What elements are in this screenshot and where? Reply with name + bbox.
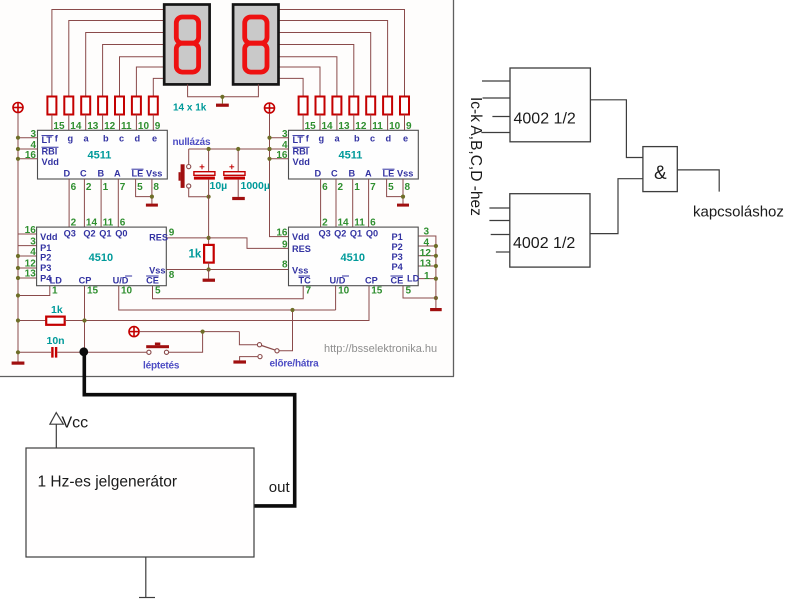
- svg-text:Vss: Vss: [397, 169, 413, 179]
- IC box U2 (4510 BCD up/down counter): [37, 227, 167, 286]
- junction: rail / U1 pin 3: [16, 136, 20, 140]
- svg-text:CE: CE: [391, 276, 404, 286]
- junction: rail / R16 net: [16, 318, 20, 322]
- svg-text:c: c: [370, 134, 375, 144]
- junction: rail / U1 pin 4: [16, 147, 20, 151]
- svg-text:C: C: [331, 169, 338, 179]
- svg-text:LT: LT: [293, 135, 304, 145]
- junction: rail2 / U3 pin 4: [267, 147, 271, 151]
- svg-text:1: 1: [52, 286, 58, 297]
- wire: U3 pin 4 to rail: [270, 148, 289, 150]
- svg-text:Vcc: Vcc: [62, 415, 89, 432]
- ground: generator: [139, 557, 155, 598]
- wire: U3 pin 7 to U4 pin 6: [368, 179, 370, 227]
- wire: U4 pin 3 P1 / right rail: [418, 236, 436, 308]
- junction: U3 pins 5/8: [401, 195, 405, 199]
- svg-text:16: 16: [25, 150, 37, 161]
- svg-text:4: 4: [30, 247, 36, 258]
- resistor R1 (1k): [47, 97, 56, 115]
- svg-text:16: 16: [276, 150, 288, 161]
- svg-text:Ic-k A,B,C,D -hez: Ic-k A,B,C,D -hez: [467, 97, 484, 216]
- wire: U3 pin 8 Vss to ground: [402, 179, 404, 204]
- resistor R14 (1k): [400, 97, 409, 115]
- ground symbol: switch: [233, 360, 246, 363]
- svg-text:7: 7: [120, 182, 126, 193]
- ground symbol: U3 Vss: [397, 204, 409, 207]
- wire: U1 pin 3 to rail: [18, 137, 38, 139]
- resistor R12 (1k): [366, 97, 375, 115]
- capacitor C1 10µ electrolytic: [194, 164, 215, 179]
- svg-text:A: A: [365, 169, 372, 179]
- svg-text:elõre/hátra: elõre/hátra: [270, 359, 320, 370]
- svg-text:3: 3: [30, 129, 36, 140]
- wire: display1 segment d to R6: [136, 67, 164, 97]
- wire: U2 pin 10 U/D to U4 pin 10: [119, 286, 336, 310]
- resistor R7 (1k): [149, 97, 158, 115]
- svg-text:8: 8: [169, 270, 175, 281]
- junction: reset net / rail2: [267, 147, 271, 151]
- wire: R10 to 4511 U3 pin: [336, 115, 338, 131]
- svg-text:out: out: [269, 479, 291, 496]
- svg-text:U/D: U/D: [113, 276, 129, 286]
- ground symbol: C2: [232, 197, 245, 200]
- svg-text:LE: LE: [132, 169, 144, 179]
- svg-text:e: e: [403, 134, 408, 144]
- svg-text:CP: CP: [365, 276, 378, 286]
- wire: R16 to CP pins net: [65, 320, 369, 322]
- svg-text:15: 15: [371, 286, 383, 297]
- wire: S2 to power net: [169, 332, 203, 353]
- svg-text:RES: RES: [149, 233, 168, 243]
- svg-text:5: 5: [406, 286, 412, 297]
- svg-text:4510: 4510: [89, 252, 113, 264]
- svg-text:Vdd: Vdd: [293, 157, 310, 167]
- svg-text:P3: P3: [40, 263, 51, 273]
- wire: U2 pin 13 to rail: [18, 277, 37, 279]
- schematic border bottom edge: [0, 376, 454, 378]
- wires: U5 input stubs: [481, 81, 510, 133]
- wire: display2 segment d to R9: [279, 67, 321, 97]
- wire: C3 to léptetés button: [57, 351, 146, 353]
- svg-text:3: 3: [424, 227, 430, 238]
- 7-segment display DIS1: [164, 5, 209, 85]
- resistor R6 (1k): [132, 97, 141, 115]
- wire: R11 to 4511 U3 pin: [353, 115, 355, 131]
- svg-text:RES: RES: [292, 244, 311, 254]
- wire: U2 pin 1 LD to rail: [18, 286, 50, 296]
- svg-text:TC: TC: [299, 276, 312, 286]
- svg-text:g: g: [68, 134, 74, 144]
- svg-text:14 x 1k: 14 x 1k: [173, 103, 207, 114]
- svg-text:P1: P1: [40, 243, 51, 253]
- wire: reset button bottom lead: [189, 188, 209, 197]
- junction: rail / U2 pin 4: [16, 254, 20, 258]
- junction: right rail / U4 pin 4: [434, 244, 438, 248]
- wire: U3 pin 5 LE: [387, 179, 403, 197]
- svg-text:Q3: Q3: [319, 229, 331, 239]
- wire: C2 top lead: [237, 149, 239, 172]
- wire: display2 segment b to R11: [279, 45, 354, 97]
- svg-text:c: c: [119, 134, 124, 144]
- wire: U2 pin 12 to rail: [18, 267, 37, 269]
- junction: rail / C3: [16, 350, 20, 354]
- svg-text:RBI: RBI: [293, 147, 309, 157]
- wire: U4 pin 1 to right rail: [418, 278, 436, 280]
- svg-text:nullázás: nullázás: [173, 137, 211, 148]
- svg-text:3: 3: [30, 236, 36, 247]
- svg-text:6: 6: [322, 182, 328, 193]
- wire: rail to R16: [18, 320, 46, 322]
- wire: display1 segment g to R2: [69, 21, 164, 97]
- svg-text:Q3: Q3: [64, 229, 76, 239]
- wire: U4 pin 15 CP stub: [368, 286, 370, 321]
- svg-text:P3: P3: [392, 252, 403, 262]
- wire: R5 to 4511 U1 pin: [119, 115, 121, 131]
- wire: U2 pin 16 to rail: [18, 233, 37, 235]
- wire: display1 segment b to R4: [103, 45, 165, 97]
- op-amp-style IC box U3 (4511 BCD to 7seg decoder): [289, 130, 419, 179]
- svg-text:Q2: Q2: [334, 229, 346, 239]
- wire: R8 to 4511 U3 pin: [302, 115, 304, 131]
- svg-text:D: D: [64, 169, 71, 179]
- wire: U3 pin 3 to rail: [270, 137, 289, 139]
- svg-text:8: 8: [405, 182, 411, 193]
- wire: R2 to 4511 U1 pin: [68, 115, 70, 131]
- junction: U/D net / switch: [290, 308, 294, 312]
- svg-text:10: 10: [121, 286, 133, 297]
- wire: display1 segment f to R1: [52, 10, 164, 97]
- pushbutton S1 nullázás: [179, 164, 191, 188]
- svg-text:A: A: [114, 169, 121, 179]
- junction: rail2 / U3 pin 16: [267, 157, 271, 161]
- svg-text:&: &: [654, 163, 667, 184]
- wire: display1 segment e to R7: [153, 78, 164, 96]
- wire: U2 RES pin 9: [166, 237, 208, 239]
- pushbutton S2 léptetés: [146, 343, 169, 355]
- 7-segment display DIS2: [233, 5, 278, 85]
- ground symbol: display common: [216, 104, 229, 107]
- wire: switch pole to U/D net: [279, 310, 292, 351]
- svg-text:U/D: U/D: [330, 276, 346, 286]
- svg-text:5: 5: [155, 286, 161, 297]
- wire: display1 segment a to R3: [86, 33, 165, 97]
- svg-text:15: 15: [87, 286, 99, 297]
- wire: U3 pin 1 to U4 pin 11: [352, 179, 354, 227]
- ground symbol: Vss net: [203, 279, 215, 282]
- svg-text:LD: LD: [50, 276, 63, 286]
- svg-text:1000µ: 1000µ: [241, 180, 270, 192]
- wire: léptetés power net: [139, 331, 239, 333]
- svg-text:http://bsselektronika.hu: http://bsselektronika.hu: [324, 343, 437, 355]
- wire: R4 to 4511 U1 pin: [102, 115, 104, 131]
- svg-text:RBI: RBI: [42, 147, 58, 157]
- svg-text:10: 10: [338, 286, 350, 297]
- node: clock junction (thick): [79, 347, 88, 356]
- junction: right rail / U4 pin 12: [434, 254, 438, 258]
- capacitor C3 10n: [51, 347, 57, 358]
- svg-text:8: 8: [282, 260, 288, 271]
- junction: Vss net / R15: [207, 267, 211, 271]
- wire: U1 pin 8 Vss to ground: [151, 179, 153, 204]
- svg-text:1 Hz-es jelgenerátor: 1 Hz-es jelgenerátor: [38, 474, 178, 491]
- resistor R3 (1k): [81, 97, 90, 115]
- svg-text:7: 7: [306, 286, 312, 297]
- wire: R1 to 4511 U1 pin: [51, 115, 53, 131]
- svg-text:LE: LE: [383, 169, 395, 179]
- svg-text:a: a: [335, 134, 341, 144]
- svg-text:16: 16: [25, 225, 37, 236]
- wire: thick clock line from junction to generator out: [84, 352, 294, 506]
- svg-text:10µ: 10µ: [210, 180, 228, 192]
- power symbol VCC column 2: [265, 103, 275, 113]
- wire: U3 pin 16 to rail: [270, 158, 289, 160]
- resistor R2 (1k): [64, 97, 73, 115]
- wire: R13 to 4511 U3 pin: [387, 115, 389, 131]
- wire: U1 pin 16 to rail: [18, 158, 38, 160]
- svg-text:B: B: [349, 169, 356, 179]
- wire: display2 segment f to R14: [279, 10, 405, 97]
- svg-text:P4: P4: [392, 262, 404, 272]
- resistor R16 (1k): [46, 317, 64, 325]
- wire: U2 pin 3 to rail: [18, 245, 37, 247]
- svg-text:Vss: Vss: [149, 265, 165, 275]
- svg-text:3: 3: [282, 129, 288, 140]
- generator box: 1 Hz-es jelgenerátor: [26, 448, 254, 557]
- svg-text:P2: P2: [40, 253, 51, 263]
- wire: switch contact B to ground: [240, 357, 258, 361]
- schematic background area: [0, 0, 453, 376]
- svg-text:Q1: Q1: [99, 229, 111, 239]
- svg-text:4511: 4511: [88, 149, 112, 161]
- svg-text:4: 4: [424, 237, 430, 248]
- wire: display2 segment c to R10: [279, 57, 337, 97]
- junction: right rail / U4 pin 13: [434, 264, 438, 268]
- wire: U7 output: [677, 170, 719, 192]
- wire: R3 to 4511 U1 pin: [85, 115, 87, 131]
- svg-text:P2: P2: [392, 242, 403, 252]
- schematic border right edge: [453, 0, 455, 377]
- svg-text:10n: 10n: [47, 335, 65, 347]
- svg-text:LD: LD: [407, 274, 420, 284]
- Vcc symbol at generator: [50, 413, 64, 448]
- wire: U6 output to AND gate U7: [590, 179, 643, 234]
- svg-text:d: d: [386, 134, 392, 144]
- junction: rail / U2 LD: [16, 293, 20, 297]
- svg-text:Vss: Vss: [146, 169, 162, 179]
- wire: U5 output to AND gate U7: [590, 100, 643, 158]
- wire: U2 pin 4 to rail: [18, 255, 37, 257]
- junction: U1 pins 5/8: [150, 195, 154, 199]
- svg-text:d: d: [135, 134, 141, 144]
- resistor R4 (1k): [98, 97, 107, 115]
- svg-text:4511: 4511: [339, 149, 363, 161]
- junction: rail / U2 pin 13: [16, 276, 20, 280]
- wire: U1 pin 1 to U2 pin 11: [100, 179, 102, 227]
- svg-text:kapcsoláshoz: kapcsoláshoz: [693, 204, 784, 221]
- wire: R6 to 4511 U1 pin: [135, 115, 137, 131]
- wire: U2 pin 15 CP clock net: [84, 286, 86, 353]
- wire: C1 top lead: [208, 149, 210, 172]
- svg-text:Q2: Q2: [83, 229, 95, 239]
- wire: U1 pin 7 to U2 pin 6: [117, 179, 119, 227]
- svg-text:b: b: [103, 134, 109, 144]
- resistor R15 (1k): [204, 245, 214, 263]
- junction: léptetés power / S2: [201, 330, 205, 334]
- wire: display1 segment c to R5: [120, 57, 165, 97]
- wire: RES net to U4 pin 9: [209, 238, 289, 249]
- svg-text:Vdd: Vdd: [40, 232, 57, 242]
- svg-text:9: 9: [282, 239, 288, 250]
- power symbol: léptetés pull-up: [129, 327, 139, 337]
- svg-text:6: 6: [71, 182, 77, 193]
- svg-text:D: D: [315, 169, 322, 179]
- wire: C2 bottom lead: [237, 180, 239, 197]
- ground symbol: left rail bottom: [12, 362, 25, 365]
- wire: U4 pin 4 to right rail: [418, 245, 436, 247]
- junction: right rail / U4 CE: [434, 296, 438, 300]
- resistor R8 (1k): [299, 97, 308, 115]
- wire: U1 pin 5 LE: [136, 179, 152, 197]
- wire: display2 segment g to R13: [279, 21, 388, 97]
- wire: R9 to 4511 U3 pin: [319, 115, 321, 131]
- svg-text:13: 13: [420, 258, 432, 269]
- wire: R7 to 4511 U1 pin: [152, 115, 154, 131]
- svg-text:2: 2: [338, 182, 344, 193]
- svg-text:Q1: Q1: [350, 229, 362, 239]
- resistor R9 (1k): [316, 97, 325, 115]
- wire: display2 common: [222, 84, 258, 96]
- IC box U4 (4510 BCD up/down counter): [289, 227, 419, 286]
- svg-text:4510: 4510: [341, 252, 365, 264]
- junction: clock net / U2 CP: [82, 318, 86, 322]
- wire: U2 pin 5 CE to U4 pin 7 TC: [153, 286, 304, 299]
- wire: U1 pin 6 to U2 pin 2: [68, 179, 70, 227]
- svg-text:1k: 1k: [51, 304, 63, 316]
- resistor R13 (1k): [383, 97, 392, 115]
- wire: display2 segment e to R8: [279, 78, 304, 96]
- wire: C1 bottom lead: [208, 180, 210, 197]
- capacitor C2 1000µ electrolytic: [224, 164, 245, 179]
- wire: U3 pin 6 to U4 pin 2: [320, 179, 322, 227]
- svg-text:Vdd: Vdd: [292, 232, 309, 242]
- op-amp-style IC box U1 (4511 BCD to 7seg decoder): [38, 130, 168, 179]
- wire: U2 pin 8 Vss to U4 pin 8 Vss: [166, 269, 288, 271]
- wire: supply rail column2 to U4 Vdd pin16: [270, 113, 289, 236]
- junction: rail / U2 pin 12: [16, 266, 20, 270]
- svg-text:léptetés: léptetés: [143, 361, 180, 372]
- svg-text:CP: CP: [79, 276, 92, 286]
- svg-text:1: 1: [103, 182, 109, 193]
- svg-text:1k: 1k: [189, 249, 202, 261]
- svg-text:a: a: [84, 134, 90, 144]
- ground symbol: right rail: [430, 308, 442, 311]
- wire: display2 segment a to R12: [279, 33, 371, 97]
- svg-text:1: 1: [354, 182, 360, 193]
- junction: RES net / R15: [207, 236, 211, 240]
- wire: display1 common: [188, 84, 223, 96]
- svg-text:9: 9: [169, 227, 175, 238]
- junction: right rail / U4 pin 1: [434, 277, 438, 281]
- junction: button / C1: [207, 195, 211, 199]
- wire: R12 to 4511 U3 pin: [370, 115, 372, 131]
- switch S3 előre/hátra: [257, 343, 279, 359]
- resistor R11 (1k): [349, 97, 358, 115]
- svg-text:7: 7: [370, 182, 376, 193]
- wires: U6 input stubs: [489, 208, 510, 252]
- svg-text:B: B: [98, 169, 105, 179]
- wire: rail to C3: [18, 351, 51, 353]
- wire: R15 bottom to Vss net: [208, 263, 210, 270]
- wire: U3 pin 2 to U4 pin 14: [335, 179, 337, 227]
- wire: reset net top: [189, 148, 270, 150]
- wire: U4 pin 5 CE to right rail: [403, 286, 436, 298]
- AND gate U7 box: [643, 147, 677, 192]
- svg-text:2: 2: [86, 182, 92, 193]
- svg-text:C: C: [80, 169, 87, 179]
- IC box U6: 4002 1/2 (bottom): [510, 194, 590, 267]
- power symbol VCC column 1: [13, 103, 23, 113]
- svg-text:Q0: Q0: [115, 229, 127, 239]
- svg-text:5: 5: [137, 182, 143, 193]
- svg-text:16: 16: [276, 228, 288, 239]
- svg-text:Vdd: Vdd: [42, 157, 59, 167]
- junction: reset net / C1: [207, 147, 211, 151]
- svg-text:5: 5: [388, 182, 394, 193]
- wire: reset button top lead: [188, 149, 190, 164]
- svg-text:g: g: [319, 134, 325, 144]
- wire: power net to switch contact A: [239, 332, 257, 345]
- wire: display common ground stub: [221, 97, 223, 104]
- svg-text:4002 1/2: 4002 1/2: [514, 111, 576, 128]
- svg-text:8: 8: [153, 182, 159, 193]
- svg-text:1: 1: [424, 271, 430, 282]
- svg-text:e: e: [152, 134, 157, 144]
- svg-text:Q0: Q0: [366, 229, 378, 239]
- wire: Vss net ground stub: [208, 270, 210, 279]
- svg-text:CE: CE: [146, 276, 159, 286]
- junction: rail / U1 pin 16: [16, 157, 20, 161]
- wire: reset net vertical to R15: [208, 197, 210, 245]
- junction: display commons: [220, 95, 224, 99]
- svg-text:b: b: [354, 134, 360, 144]
- wire: U4 pin 13 to right rail: [418, 265, 436, 267]
- junction: reset net / C2: [236, 147, 240, 151]
- wire: left supply rail column1: [17, 113, 19, 362]
- wire: U4 pin 12 to right rail: [418, 255, 436, 257]
- resistor R5 (1k): [115, 97, 124, 115]
- svg-text:Vss: Vss: [292, 265, 308, 275]
- svg-text:4002 1/2: 4002 1/2: [513, 235, 575, 252]
- ground symbol: U1 Vss: [146, 204, 158, 207]
- wire: U4 pin 10 U/D stub: [335, 286, 337, 310]
- svg-text:P1: P1: [392, 232, 403, 242]
- wire: U1 pin 4 to rail: [18, 148, 38, 150]
- wire: R14 to 4511 U3 pin: [404, 115, 406, 131]
- wire: U1 pin 2 to U2 pin 14: [83, 179, 85, 227]
- IC box U5: 4002 1/2 (top): [510, 68, 590, 142]
- svg-text:13: 13: [25, 269, 37, 280]
- resistor R10 (1k): [332, 97, 341, 115]
- svg-text:LT: LT: [42, 135, 53, 145]
- junction: rail2 / U3 pin 3: [267, 136, 271, 140]
